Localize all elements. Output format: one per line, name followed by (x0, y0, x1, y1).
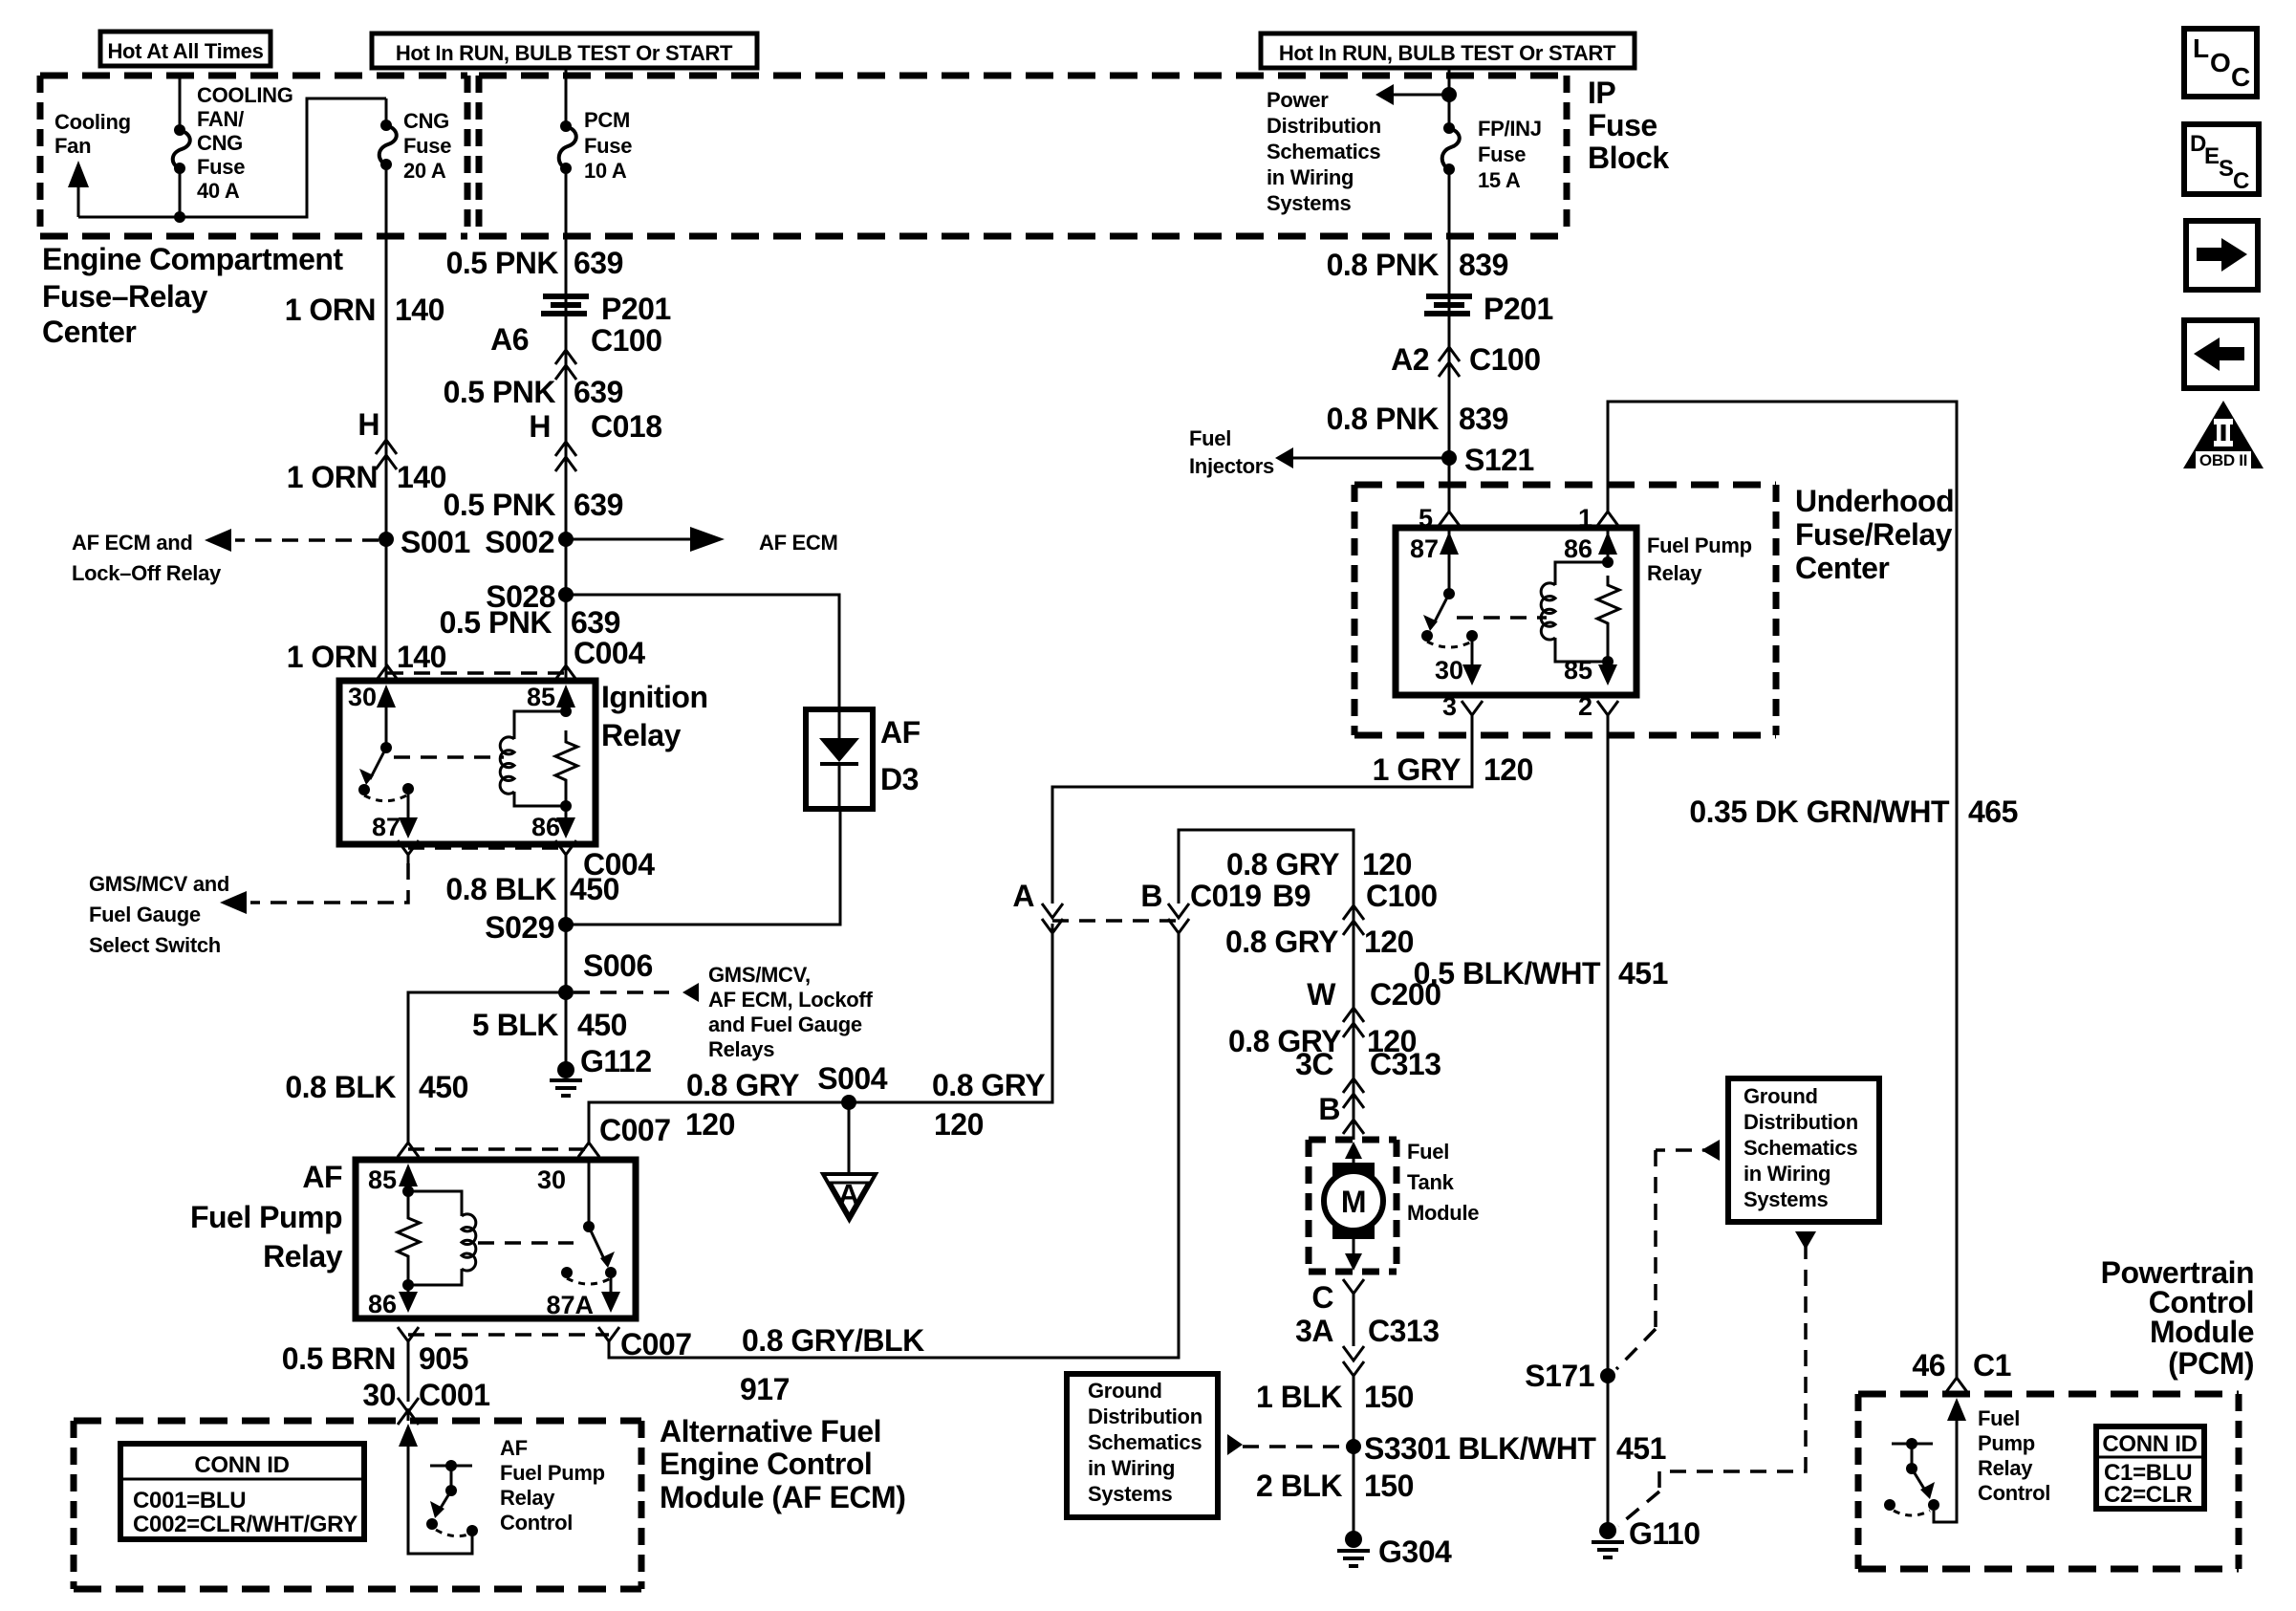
connector 3A C313 (1295, 1314, 1439, 1376)
svg-text:Distribution: Distribution (1267, 114, 1381, 138)
svg-text:1 GRY: 1 GRY (1373, 752, 1462, 787)
splice S002 (485, 525, 574, 559)
svg-text:5 BLK: 5 BLK (472, 1008, 558, 1042)
svg-text:Select Switch: Select Switch (89, 933, 221, 957)
dashed arrow AF ECM and Lock-Off Relay (72, 529, 379, 585)
label box Hot At All Times (100, 32, 271, 66)
underhood relay pin 85 (1564, 633, 1617, 686)
svg-text:AF: AF (880, 715, 921, 750)
svg-text:Ignition: Ignition (601, 680, 708, 714)
svg-text:GMS/MCV,: GMS/MCV, (708, 963, 811, 987)
ignition relay pin 30 (348, 683, 396, 753)
svg-text:Fuel: Fuel (1189, 426, 1231, 450)
dashed arrow ground distribution to S3301 (1227, 1434, 1342, 1455)
svg-text:1 ORN: 1 ORN (287, 640, 378, 674)
arrow Fuel Injectors (1189, 426, 1449, 478)
svg-text:30: 30 (537, 1165, 566, 1194)
svg-text:Block: Block (1588, 141, 1669, 175)
svg-text:Fuel Pump: Fuel Pump (1647, 533, 1752, 557)
splice S006 (558, 948, 653, 1000)
svg-text:Alternative Fuel: Alternative Fuel (660, 1414, 881, 1448)
svg-text:B9: B9 (1272, 879, 1310, 913)
svg-text:Ground: Ground (1088, 1379, 1162, 1403)
wire ignition 86 down to G112 (x=592) (565, 863, 568, 1065)
label 0.8 GRY/BLK 917 (740, 1323, 924, 1406)
svg-text:Tank: Tank (1407, 1170, 1455, 1194)
svg-text:140: 140 (397, 640, 446, 674)
wire 0.8 GRY/BLK 917 (609, 932, 1179, 1358)
svg-text:E: E (2204, 143, 2220, 169)
wire from 40A fuse to junction and cooling fan arrow (78, 98, 386, 217)
ignition relay box (339, 681, 596, 844)
label 0.8 GRY 120 (1228, 1024, 1417, 1058)
label 1 ORN 140 (second) (287, 460, 446, 494)
connector A6 C100 (490, 322, 661, 380)
icon DESC box (2184, 124, 2259, 194)
svg-text:Schematics: Schematics (1267, 140, 1380, 163)
label 0.5 PNK 639 C004 (fourth) (440, 605, 646, 670)
label 1 ORN 140 (third) (287, 640, 446, 674)
svg-text:Module: Module (2150, 1315, 2254, 1349)
svg-text:Relay: Relay (601, 718, 682, 752)
fuse FP/INJ 15A (1442, 122, 1460, 175)
svg-text:Fuse: Fuse (1588, 108, 1657, 142)
svg-text:A: A (1012, 879, 1034, 913)
svg-text:AF ECM, Lockoff: AF ECM, Lockoff (708, 988, 873, 1012)
ground distribution box (middle) (1067, 1374, 1218, 1517)
connector C007 (below AF fuel pump relay) (398, 1327, 692, 1361)
svg-text:30: 30 (362, 1378, 396, 1412)
svg-text:120: 120 (685, 1107, 735, 1142)
svg-text:C002=CLR/WHT/GRY: C002=CLR/WHT/GRY (133, 1512, 357, 1537)
svg-text:0.35 DK GRN/WHT: 0.35 DK GRN/WHT (1689, 795, 1950, 829)
svg-text:Schematics: Schematics (1088, 1430, 1202, 1454)
label box Hot In RUN BULB TEST Or START (left) (372, 33, 757, 68)
svg-text:86: 86 (531, 813, 560, 841)
svg-text:0.5 PNK: 0.5 PNK (444, 375, 556, 409)
svg-text:H: H (357, 407, 379, 442)
dashed jumper C019 (1052, 919, 1179, 923)
dashed arrow ground distribution to G110 (1618, 1231, 1816, 1526)
wire pin 1 to PCM (x=2047) (1608, 402, 1957, 1378)
svg-text:S002: S002 (485, 525, 554, 559)
label 0.8 GRY 120 (left of S004) (685, 1068, 799, 1142)
svg-text:G110: G110 (1629, 1516, 1700, 1551)
fuel pump motor (1324, 1142, 1383, 1271)
connector H (left wire) (357, 407, 397, 469)
svg-text:450: 450 (570, 872, 619, 906)
svg-text:87A: 87A (546, 1291, 594, 1319)
svg-text:OBD II: OBD II (2199, 451, 2247, 469)
svg-text:Fuse: Fuse (1478, 142, 1526, 166)
label 1 BLK 150 (1256, 1380, 1414, 1414)
svg-text:1 ORN: 1 ORN (285, 293, 376, 327)
connector C004 (above ignition relay) (377, 665, 576, 680)
svg-text:Module (AF ECM): Module (AF ECM) (660, 1480, 905, 1514)
splice S121 (1441, 443, 1534, 477)
svg-text:0.8 GRY: 0.8 GRY (932, 1068, 1045, 1102)
dashed arrow GMS/MCV AF ECM Lockoff and Fuel Gauge Relays (574, 963, 873, 1061)
svg-text:40 A: 40 A (197, 179, 240, 203)
ignition relay pin 86 (531, 788, 575, 841)
label Fuel Tank Module (1407, 1140, 1479, 1225)
label 1 GRY 120 (1373, 752, 1533, 787)
AF fuel pump relay box (356, 1160, 636, 1318)
label Fuel Pump Relay (underhood) (1647, 533, 1752, 585)
svg-text:Control: Control (500, 1511, 573, 1535)
svg-text:Relays: Relays (708, 1037, 774, 1061)
svg-text:Distribution: Distribution (1744, 1110, 1858, 1134)
underhood relay pin 87 (1410, 528, 1459, 599)
svg-text:2: 2 (1578, 692, 1592, 721)
label Underhood Fuse/Relay Center (1795, 484, 1954, 585)
dashed arrow ground distribution to S171 (1616, 1140, 1720, 1369)
svg-text:Distribution: Distribution (1088, 1404, 1202, 1428)
svg-text:C: C (1311, 1280, 1333, 1315)
arrow to AF ECM (566, 527, 838, 555)
svg-text:465: 465 (1968, 795, 2018, 829)
svg-text:0.8 BLK: 0.8 BLK (285, 1070, 396, 1104)
svg-text:Systems: Systems (1267, 191, 1351, 215)
svg-text:C1: C1 (1973, 1348, 2011, 1382)
svg-text:S: S (2219, 156, 2234, 182)
label 0.8 GRY 120 (right of S004) (932, 1068, 1045, 1142)
ground G110 (1592, 1516, 1700, 1557)
label AF Fuel Pump Relay Control (500, 1436, 605, 1535)
ignition relay coil (514, 711, 566, 806)
svg-text:AF: AF (302, 1160, 342, 1194)
AF relay resistor (398, 1191, 420, 1285)
svg-text:C313: C313 (1370, 1047, 1441, 1081)
svg-text:C100: C100 (591, 323, 662, 358)
connector A (C019) (1012, 879, 1063, 933)
svg-text:S3301 BLK/WHT: S3301 BLK/WHT (1364, 1431, 1596, 1466)
svg-text:150: 150 (1364, 1380, 1414, 1414)
svg-text:P201: P201 (601, 292, 671, 326)
splice S001 (379, 525, 470, 559)
label 0.8 BLK 450 (left wire) (285, 1070, 468, 1104)
svg-text:86: 86 (368, 1290, 397, 1318)
splice S029 (485, 910, 574, 945)
svg-text:CNG: CNG (197, 131, 243, 155)
svg-text:639: 639 (574, 246, 623, 280)
svg-text:87: 87 (1410, 534, 1439, 563)
svg-text:Underhood: Underhood (1795, 484, 1954, 518)
svg-text:B: B (1140, 879, 1162, 913)
label 1 ORN 140 (285, 293, 444, 327)
svg-text:0.5 BRN: 0.5 BRN (282, 1341, 396, 1376)
svg-text:0.5 BLK/WHT: 0.5 BLK/WHT (1414, 956, 1601, 991)
svg-text:450: 450 (577, 1008, 627, 1042)
svg-text:905: 905 (419, 1341, 468, 1376)
svg-text:FAN/: FAN/ (197, 107, 244, 131)
PCM dashed box (1858, 1394, 2239, 1569)
wire AF relay 86 to C001 (407, 1350, 410, 1402)
PCM fuel pump relay control switch (1884, 1438, 1939, 1515)
svg-text:GMS/MCV and: GMS/MCV and (89, 872, 229, 896)
svg-text:B: B (1318, 1092, 1340, 1126)
svg-text:Fuel: Fuel (1978, 1406, 2020, 1430)
svg-text:S171: S171 (1525, 1359, 1594, 1393)
svg-text:Hot In RUN, BULB TEST Or START: Hot In RUN, BULB TEST Or START (1279, 41, 1616, 65)
svg-text:Schematics: Schematics (1744, 1136, 1857, 1160)
svg-text:C2=CLR: C2=CLR (2104, 1482, 2192, 1508)
label 0.35 DK GRN/WHT 465 (1689, 795, 2018, 829)
svg-text:H: H (529, 409, 551, 444)
arrow Power Distribution (1267, 84, 1457, 215)
fuse PCM 10A (559, 120, 576, 174)
svg-text:A6: A6 (490, 322, 529, 357)
label Fuel Pump Relay Control (PCM) (1978, 1406, 2050, 1505)
svg-text:in Wiring: in Wiring (1088, 1456, 1175, 1480)
svg-text:A2: A2 (1391, 342, 1429, 377)
svg-text:0.5 PNK: 0.5 PNK (440, 605, 552, 640)
svg-text:S001: S001 (401, 525, 470, 559)
label 0.5 BLK/WHT 451 (1414, 956, 1668, 991)
svg-text:(PCM): (PCM) (2168, 1346, 2254, 1381)
ignition relay pin 87 (372, 789, 418, 841)
label box Hot In RUN BULB TEST Or START (right) (1261, 33, 1635, 68)
svg-text:87: 87 (372, 813, 401, 841)
svg-text:FP/INJ: FP/INJ (1478, 117, 1542, 141)
AF ECM internal wire and arrow (399, 1424, 472, 1554)
svg-text:Fuse–Relay: Fuse–Relay (42, 279, 208, 314)
svg-text:D3: D3 (880, 762, 919, 796)
label 0.8 PNK 839 (1327, 248, 1508, 282)
svg-text:46: 46 (1912, 1348, 1945, 1382)
label 0.8 BLK 450 (445, 872, 619, 906)
svg-text:IP: IP (1588, 76, 1615, 110)
svg-text:Fuel Pump: Fuel Pump (190, 1200, 342, 1234)
AF ECM dashed box (74, 1421, 641, 1589)
svg-text:0.8 GRY/BLK: 0.8 GRY/BLK (742, 1323, 924, 1358)
svg-text:917: 917 (740, 1372, 790, 1406)
wire FP/INJ drop (x=1516) (1448, 68, 1451, 123)
wire S029 to diode bottom (566, 809, 840, 925)
label 0.5 PNK 639 (third) (444, 488, 623, 522)
svg-text:3: 3 (1442, 692, 1457, 721)
connector B C019 (1140, 879, 1261, 933)
wire CNG fuse feed (385, 98, 388, 120)
wire S028 to diode D3 (566, 595, 839, 709)
wire PCM fuse drop (x=592) (565, 68, 568, 121)
svg-text:140: 140 (397, 460, 446, 494)
label COOLING FAN/CNG Fuse 40 A (197, 83, 293, 203)
label IP Fuse Block (1588, 76, 1669, 175)
label Cooling Fan (54, 110, 131, 158)
splice S004 (817, 1061, 887, 1110)
label Powertrain Control Module (PCM) (2101, 1255, 2254, 1381)
underhood relay pin 2 (1578, 692, 1618, 735)
svg-text:C004: C004 (574, 636, 645, 670)
connector C004 (below ignition relay) (398, 840, 655, 882)
svg-text:85: 85 (368, 1165, 397, 1194)
wire 0.5 PNK 639 (right vertical x=592) (565, 168, 568, 681)
dashed arrow GMS/MCV and Fuel Gauge Select Switch (89, 863, 408, 957)
svg-text:30: 30 (348, 683, 377, 711)
label 0.8 PNK 839 (second) (1327, 402, 1508, 436)
splice S3301 (1346, 1431, 1666, 1466)
svg-text:Relay: Relay (500, 1486, 555, 1510)
label 0.5 BRN 905 (282, 1341, 468, 1376)
connector 30 C001 (362, 1378, 489, 1425)
ignition relay pin 85 (527, 683, 575, 717)
AF ECM fuel pump relay control switch (426, 1460, 478, 1536)
svg-text:COOLING: COOLING (197, 83, 293, 107)
svg-text:Fuel Pump: Fuel Pump (500, 1461, 605, 1485)
svg-text:Center: Center (1795, 551, 1889, 585)
connector B (fuel tank module) (1318, 1092, 1364, 1134)
underhood relay switch arm (1421, 594, 1547, 647)
svg-text:639: 639 (571, 605, 620, 640)
connector W C200 (1307, 977, 1440, 1037)
svg-text:86: 86 (1564, 534, 1592, 563)
svg-text:Fuse: Fuse (584, 134, 632, 158)
svg-text:450: 450 (419, 1070, 468, 1104)
svg-text:AF ECM and: AF ECM and (72, 531, 193, 555)
svg-text:839: 839 (1459, 248, 1508, 282)
underhood fuel pump relay box (1396, 528, 1636, 695)
icon LOC box (2184, 29, 2257, 97)
svg-text:2 BLK: 2 BLK (1256, 1469, 1342, 1503)
svg-text:Relay: Relay (1647, 561, 1702, 585)
Engine Compartment Fuse-Relay Center dashed box (40, 76, 467, 236)
svg-text:C001: C001 (419, 1378, 490, 1412)
svg-text:Fuse: Fuse (197, 155, 245, 179)
svg-text:0.8 BLK: 0.8 BLK (445, 872, 556, 906)
svg-text:AF ECM: AF ECM (759, 531, 838, 555)
svg-text:451: 451 (1616, 1431, 1666, 1466)
svg-text:CONN ID: CONN ID (194, 1452, 289, 1478)
label Engine Compartment Fuse-Relay Center (42, 242, 343, 349)
svg-text:Control: Control (1978, 1481, 2050, 1505)
svg-text:P201: P201 (1484, 292, 1553, 326)
underhood relay pin 3 (1442, 692, 1483, 735)
svg-text:S121: S121 (1464, 443, 1534, 477)
svg-text:Fuel: Fuel (1407, 1140, 1449, 1164)
svg-text:M: M (1341, 1185, 1366, 1219)
svg-text:0.8 PNK: 0.8 PNK (1327, 402, 1440, 436)
svg-text:S029: S029 (485, 910, 554, 945)
wire S006 left to AF relay pin85 (408, 992, 566, 1143)
svg-text:20 A: 20 A (403, 159, 446, 183)
label 5 BLK 450 (472, 1008, 627, 1042)
svg-text:Fuel Gauge: Fuel Gauge (89, 903, 201, 926)
junction dot (174, 211, 185, 223)
AF relay coil (408, 1191, 462, 1285)
svg-text:PCM: PCM (584, 108, 630, 132)
ground G112 (550, 1044, 652, 1096)
svg-text:in Wiring: in Wiring (1267, 165, 1354, 189)
wire AF relay pin30 riser and S004 run (589, 924, 1052, 1143)
svg-text:O: O (2210, 48, 2231, 77)
svg-text:639: 639 (574, 488, 623, 522)
connector H C018 (529, 409, 661, 471)
label PCM Fuse 10 A (584, 108, 632, 183)
label CNG Fuse 20 A (403, 109, 451, 183)
svg-text:0.5 PNK: 0.5 PNK (446, 246, 559, 280)
svg-text:639: 639 (574, 375, 623, 409)
connector P201 (left) (541, 292, 671, 326)
wire pin 2 to G110 (x=1682) (1607, 735, 1610, 1526)
svg-text:L: L (2193, 33, 2209, 63)
connector 3C C313 (1295, 1047, 1440, 1108)
svg-text:Hot In RUN, BULB TEST Or START: Hot In RUN, BULB TEST Or START (396, 41, 733, 65)
svg-text:3A: 3A (1295, 1314, 1333, 1348)
svg-text:1 BLK: 1 BLK (1256, 1380, 1342, 1414)
svg-text:Relay: Relay (263, 1239, 343, 1274)
svg-text:120: 120 (934, 1107, 984, 1142)
svg-text:C019: C019 (1190, 879, 1262, 913)
diode AF D3 (806, 709, 921, 809)
svg-text:C007: C007 (599, 1113, 671, 1147)
underhood relay pin 86 (1564, 528, 1617, 568)
arrow to Cooling Fan (68, 161, 89, 217)
underhood relay resistor (1597, 576, 1619, 633)
svg-text:Engine Compartment: Engine Compartment (42, 242, 343, 276)
svg-text:CNG: CNG (403, 109, 449, 133)
svg-text:C001=BLU: C001=BLU (133, 1488, 246, 1513)
connector B9 C100 (1272, 879, 1437, 935)
svg-text:S006: S006 (583, 948, 653, 983)
svg-text:140: 140 (395, 293, 444, 327)
svg-text:Pump: Pump (1978, 1431, 2035, 1455)
svg-text:150: 150 (1364, 1469, 1414, 1503)
wire 1 BLK 150 to G304 (1353, 1376, 1355, 1539)
svg-text:30: 30 (1435, 656, 1463, 685)
svg-text:120: 120 (1484, 752, 1533, 787)
svg-text:C313: C313 (1368, 1314, 1440, 1348)
svg-text:Systems: Systems (1744, 1187, 1828, 1211)
connector C (fuel tank module) (1311, 1279, 1364, 1346)
svg-text:Cooling: Cooling (54, 110, 131, 134)
underhood relay pin 30 (1435, 636, 1482, 686)
AF relay pin 85 (368, 1164, 418, 1197)
splice S171 (1525, 1359, 1615, 1393)
svg-text:Module: Module (1407, 1201, 1479, 1225)
wire cooling fan feed (179, 76, 182, 125)
svg-text:CONN ID: CONN ID (2102, 1431, 2197, 1457)
wire 0.8 PNK 839 (x=1516) (1448, 169, 1451, 485)
svg-text:C: C (2233, 168, 2249, 194)
connector 46 C1 (1912, 1348, 2011, 1392)
svg-text:Engine Control: Engine Control (660, 1447, 872, 1481)
svg-text:Ground: Ground (1744, 1084, 1818, 1108)
svg-text:and Fuel Gauge: and Fuel Gauge (708, 1012, 862, 1036)
underhood fuse/relay center dashed box (1354, 485, 1776, 735)
svg-text:0.8 GRY: 0.8 GRY (1225, 925, 1338, 959)
underhood relay pin 1 (1578, 504, 1618, 533)
label FP/INJ Fuse 15 A (1478, 117, 1542, 192)
wire 1 ORN 140 (left vertical x=405) (385, 164, 388, 681)
svg-text:A: A (838, 1178, 859, 1211)
label 0.5 PNK 639 (second) (444, 375, 623, 409)
svg-text:Relay: Relay (1978, 1456, 2033, 1480)
svg-text:3C: 3C (1295, 1047, 1333, 1081)
wire 1 GRY 120 (pin 3 to A) (1052, 735, 1472, 903)
svg-text:0.5 PNK: 0.5 PNK (444, 488, 556, 522)
AF relay pin 30 (537, 1160, 595, 1232)
svg-text:0.8 GRY: 0.8 GRY (686, 1068, 799, 1102)
svg-text:Fuse: Fuse (403, 134, 451, 158)
AF relay pin 86 (368, 1279, 418, 1318)
svg-text:85: 85 (1564, 656, 1592, 685)
svg-text:451: 451 (1618, 956, 1668, 991)
wire fuel pump feed (x=1416) (1353, 905, 1355, 1140)
svg-text:Fuse/Relay: Fuse/Relay (1795, 517, 1953, 552)
icon OBD II triangle (2183, 401, 2264, 469)
ignition relay switch arm (358, 748, 504, 801)
